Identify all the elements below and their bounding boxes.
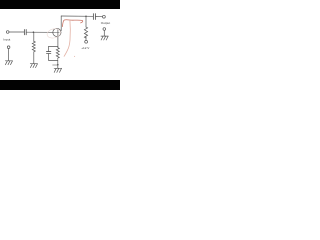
annotation red speck: [74, 56, 75, 57]
white background: [0, 0, 120, 90]
wire to input ground: [8, 49, 10, 61]
supply terminal +12V: [85, 40, 88, 43]
wire R1 to ground: [33, 52, 35, 64]
wire to output ground: [103, 30, 105, 36]
wire junction down to R1: [33, 32, 35, 41]
capacitor C3 bottom lead: [48, 54, 50, 61]
capacitor C2: [92, 14, 94, 20]
letterbox bottom bar: [0, 80, 120, 90]
wire stub at cathode ground node: [52, 64, 57, 66]
wire C2 to output: [96, 16, 103, 18]
tube cathode lead: [57, 35, 59, 46]
wire down to cathode ground: [57, 60, 59, 68]
resistor R2: [84, 27, 87, 38]
resistor R3: [56, 46, 59, 59]
ground under R1: [30, 64, 37, 68]
capacitor C1: [23, 30, 25, 35]
node grid junction: [33, 31, 35, 33]
output terminal: [103, 15, 106, 18]
wire R2 to supply: [85, 37, 87, 40]
node cathode ground junction: [57, 64, 59, 66]
ground under cathode: [54, 68, 61, 72]
cathode RC bottom wire: [49, 59, 58, 61]
wire C1 to grid: [27, 31, 54, 33]
letterbox top bar: [0, 0, 120, 9]
input terminal J1: [6, 31, 9, 34]
annotation red ellipse around tube: [46, 27, 61, 39]
svg-text:+12 V: +12 V: [81, 46, 90, 50]
wire junction down to R2: [85, 16, 87, 27]
annotation red arrow along plate wire: [62, 20, 82, 27]
plate top wire: [61, 15, 93, 17]
tube plate lead: [60, 16, 62, 31]
capacitor C3: [47, 51, 51, 53]
node plate junction: [85, 15, 87, 17]
ground under input: [5, 61, 12, 65]
capacitor C3 lead: [48, 46, 50, 51]
annotation red vertical stroke: [64, 20, 70, 57]
tube V1 envelope: [53, 28, 61, 36]
output ground terminal: [103, 28, 106, 31]
input ground terminal: [7, 46, 10, 49]
svg-text:Input: Input: [3, 37, 10, 41]
cathode RC top wire: [49, 45, 58, 47]
wire input to C1: [9, 31, 24, 33]
svg-text:Output: Output: [101, 21, 110, 25]
tube V1 internal electrode: [57, 30, 59, 35]
resistor R1: [32, 41, 35, 52]
ground under output: [101, 36, 108, 40]
